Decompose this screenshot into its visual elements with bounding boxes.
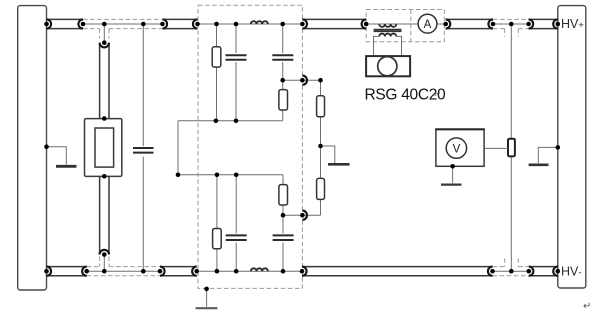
- svg-text:V: V: [453, 143, 461, 155]
- wire divider ground tap: [321, 146, 335, 163]
- coax cable VC1 (top bus down to EUT): [100, 43, 109, 119]
- bottom bus shield outline left (dashed): [87, 257, 160, 276]
- svg-text:HV-: HV-: [561, 264, 582, 278]
- wire R5 branch (mid wire to bottom bus): [216, 175, 218, 271]
- shield box (coupling/decoupling network enclosure, dashed): [198, 5, 302, 288]
- busbar right terminal plate (HV): [558, 6, 586, 288]
- capacitor C2: [272, 53, 293, 62]
- ammeter/transformer shield box (dashed): [366, 10, 444, 42]
- wire voltmeter to R8: [484, 147, 508, 149]
- ground G5 (right bar): [529, 164, 549, 167]
- resistor R1: [212, 47, 221, 67]
- junction dots top bus: [44, 22, 560, 27]
- feedthrough terminal A (shield box right edge, upper): [302, 76, 307, 85]
- bottom bus shield outline right (dashed): [493, 258, 529, 275]
- wire secondary to RSG instrument right: [396, 36, 401, 56]
- junction dots ground taps: [44, 144, 560, 168]
- wire R4 branch (mid wire to node B): [282, 175, 284, 215]
- coax cable BL2 (bottom bus into shield box): [160, 267, 197, 276]
- capacitor C3: [226, 234, 247, 243]
- junction dots bottom bus: [44, 269, 560, 274]
- coax cable BL1 (left bar to bottom bus): [47, 267, 87, 276]
- top bus shield outline left (dashed): [83, 19, 163, 38]
- wire top bus inside shield box: [198, 23, 302, 25]
- wire EUT return lower (cable cap to bottom bus): [103, 255, 105, 272]
- junction dots EUT branch: [102, 40, 107, 256]
- coax cable VC2 (EUT down to bottom bus): [100, 176, 109, 254]
- wire divider branch right (top bus to R8): [510, 24, 512, 139]
- capacitor C1: [226, 53, 247, 62]
- wire mid link vertical: [177, 121, 179, 175]
- wire C3 branch (mid wire to bottom bus): [235, 175, 237, 271]
- ammeter shield box divider (dashed): [410, 10, 412, 42]
- capacitor C0 (branch x143): [133, 146, 154, 157]
- wire ground tap left bar: [47, 147, 67, 165]
- voltmeter box: [436, 129, 484, 166]
- voltmeter box top edge bold: [435, 128, 485, 130]
- transformer T1 core: [374, 30, 402, 32]
- RSG instrument box: [366, 56, 410, 76]
- coax cable TL1 (left bar to top bus): [47, 19, 84, 28]
- wire divider upper (feedthrough A to R6): [320, 80, 322, 146]
- wire divider branch right (R8 to bottom bus): [510, 156, 512, 271]
- ammeter A1: [418, 14, 437, 33]
- wire R3 branch (node A down to mid wire): [282, 80, 284, 121]
- coax cable TL5 (to right bar HV+): [529, 19, 558, 28]
- junction dots filter internals: [176, 78, 323, 291]
- top bus shield outline right (dashed): [493, 19, 529, 36]
- coax cable BL4 (to right bar HV-): [529, 267, 558, 276]
- wire mid lower (internal common): [178, 174, 283, 176]
- wire top bus plain segment left: [83, 23, 163, 25]
- coax cable TL2 (top bus into shield box): [163, 19, 198, 28]
- node A (output node upper) wire to feedthrough: [283, 79, 321, 81]
- wire bottom bus inside shield box: [197, 270, 302, 272]
- resistor R3: [279, 90, 288, 110]
- wire divider lower (R7 to node B): [320, 146, 322, 215]
- node B (output node lower) wire to feedthrough: [283, 214, 321, 216]
- wire C2 branch (top bus to node A): [282, 24, 284, 80]
- wire R1 branch (top bus to mid node): [216, 24, 218, 121]
- wire C1 branch (top bus to mid node): [235, 24, 237, 121]
- node EUT feed upper (wire bus to cable cap): [103, 24, 105, 43]
- resistor R8 (HV divider): [508, 139, 515, 157]
- svg-text:HV+: HV+: [561, 17, 584, 31]
- feedthrough terminal B (shield box right edge, lower): [302, 211, 307, 220]
- capacitor C4: [273, 234, 294, 243]
- transformer T1 secondary winding: [379, 34, 396, 37]
- ground G1 (left bar): [56, 165, 77, 168]
- wire bottom bus plain segment right: [493, 270, 529, 272]
- wire C4 branch (node B to bottom bus): [282, 215, 284, 271]
- transformer T1 primary winding (on top bus): [379, 24, 396, 27]
- wire bottom bus plain segment left: [87, 270, 160, 272]
- wire mid upper (internal common): [178, 120, 283, 122]
- coax cable TL4 (ammeter box to right): [446, 19, 493, 28]
- resistor R7: [317, 178, 325, 199]
- resistor R6: [317, 96, 325, 117]
- EUT inner element: [95, 128, 114, 167]
- ground G4 (voltmeter): [441, 184, 462, 186]
- wire top bus plain segment right: [493, 23, 529, 25]
- wire ground tap shield box: [206, 289, 208, 307]
- wire secondary to RSG instrument: [374, 36, 380, 56]
- RSG instrument circle: [378, 57, 397, 76]
- wire voltmeter ground: [452, 166, 454, 183]
- wire ground tap right bar: [538, 147, 558, 163]
- wire top bus through transformer and ammeter: [366, 23, 446, 25]
- busbar left terminal plate: [18, 6, 47, 290]
- coax cable BL3 (shield box to right section, long): [302, 267, 493, 276]
- voltmeter circle V: [446, 138, 466, 158]
- wire capacitor branch x143 (top bus to bottom bus through C0): [142, 24, 144, 271]
- svg-text:↵: ↵: [583, 301, 591, 312]
- svg-text:A: A: [424, 19, 432, 31]
- ground G2 (divider midpoint): [328, 163, 350, 166]
- EUT box (device under test): [85, 119, 122, 177]
- inductor L1 (top bus): [251, 21, 268, 24]
- svg-text:↵: ↵: [433, 89, 441, 100]
- ground G3 (shield box): [196, 307, 218, 309]
- inductor L2 (bottom bus): [251, 268, 268, 271]
- coax cable TL3 (shield box to transformer box): [302, 19, 366, 28]
- resistor R4: [279, 185, 288, 205]
- resistor R5: [213, 229, 222, 249]
